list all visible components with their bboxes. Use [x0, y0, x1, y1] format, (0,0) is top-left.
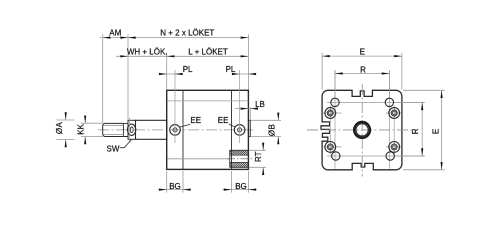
- dim line WH + L: [116, 55, 248, 57]
- arrow ØA top: [65, 112, 67, 120]
- KK extension lines: [81, 123, 103, 136]
- extension line boss face: [249, 107, 251, 119]
- arrow E right top: [441, 90, 443, 98]
- screw centerline horizontal top: [323, 112, 402, 114]
- dim line LB: [235, 108, 258, 110]
- rear boss B: [249, 120, 250, 136]
- arrow N left: [128, 37, 136, 39]
- plain hole center vertical right: [388, 70, 390, 169]
- arrow PL left-inner: [175, 73, 183, 75]
- RT extension lines: [249, 150, 266, 167]
- svg-text:LB: LB: [255, 100, 265, 109]
- wrench flat vertical centerline: [129, 118, 131, 143]
- rear thread hole RT outline: [230, 150, 249, 167]
- arrow LB left: [241, 108, 249, 110]
- arrow BG left-inner: [183, 189, 191, 191]
- RT hatch bottom band: [230, 162, 249, 167]
- svg-text:L + LÖKET: L + LÖKET: [188, 47, 228, 56]
- port circle left EE: [170, 125, 181, 136]
- svg-text:E: E: [431, 129, 440, 134]
- E right extension lines: [403, 90, 445, 170]
- lower profile line: [167, 158, 229, 160]
- front horizontal centerline: [307, 129, 416, 131]
- arrow PL right-inner: [232, 73, 240, 75]
- arrow ØB bottom: [277, 137, 279, 145]
- RT dim line: [262, 143, 264, 174]
- BG extension lines below body: [167, 171, 249, 193]
- R hole centerline horizontal bottom: [327, 155, 425, 157]
- RT core lines: [230, 155, 249, 162]
- svg-text:RT: RT: [254, 151, 263, 162]
- arrow PL right-outer: [248, 73, 256, 75]
- extension line rod tip: [102, 34, 104, 123]
- svg-text:WH + LÖK.: WH + LÖK.: [127, 47, 168, 56]
- dim line PL left: [159, 73, 181, 75]
- svg-text:ØB: ØB: [267, 124, 276, 136]
- port centerline right: [239, 70, 241, 143]
- port centerline left: [174, 70, 176, 143]
- RT hatch top band: [230, 150, 249, 155]
- R top extension lines: [335, 70, 389, 98]
- ØB dim line: [277, 113, 279, 144]
- screw centerline vertical left: [329, 106, 331, 155]
- arrow AM left: [103, 37, 111, 39]
- arrow R right bottom: [421, 148, 423, 156]
- arrow E top left: [322, 55, 330, 57]
- socket screw bottom-right: [389, 142, 400, 153]
- left end-cap line: [182, 90, 184, 169]
- svg-text:EE: EE: [218, 116, 229, 125]
- ØA extension stubs: [57, 120, 75, 140]
- arrow E top right: [394, 55, 402, 57]
- dim line E top: [322, 55, 402, 57]
- right end-cap line: [231, 90, 233, 169]
- arrow E right bottom: [441, 162, 443, 170]
- arrow WH left (outside): [120, 55, 128, 57]
- socket screw top-right: [389, 108, 400, 119]
- front vertical centerline: [361, 84, 363, 177]
- rod wrench-flat section SW: [128, 120, 136, 139]
- svg-text:R: R: [360, 66, 366, 75]
- arrow R top left: [335, 72, 343, 74]
- rod neck: [123, 123, 128, 136]
- dim line BG right: [222, 189, 257, 191]
- port circle right EE: [234, 125, 245, 136]
- piston rod: [136, 120, 167, 139]
- arrow R top right: [382, 72, 390, 74]
- leader EE left: [179, 124, 190, 127]
- dim line AM + N: [100, 37, 249, 39]
- extension line SW shoulder: [127, 34, 129, 120]
- arrow PL left-outer: [159, 73, 167, 75]
- cylinder body outline: [167, 90, 249, 169]
- E top extension lines: [322, 53, 402, 90]
- svg-text:BG: BG: [235, 182, 247, 191]
- arrow BG left-outer: [159, 189, 167, 191]
- upper profile line: [167, 100, 248, 102]
- arrow R right top: [421, 102, 423, 110]
- ØB extension lines: [251, 120, 281, 136]
- plain through-hole bottom-right: [386, 152, 394, 160]
- R right extension lines: [395, 102, 425, 156]
- plain through-hole top-right: [385, 98, 393, 106]
- svg-text:PL: PL: [226, 65, 236, 74]
- svg-text:AM: AM: [109, 29, 121, 38]
- extension line body front face: [166, 53, 168, 90]
- RT hole centerline: [227, 158, 253, 160]
- plain hole center vertical left: [334, 70, 336, 169]
- front plate outline: [321, 90, 402, 170]
- arrow ØA bottom: [65, 140, 67, 148]
- dim line E right: [441, 90, 443, 170]
- arrow ØB top: [277, 113, 279, 121]
- arrow L left: [167, 55, 175, 57]
- arrow AM right: [120, 37, 128, 39]
- KK dim line: [84, 116, 86, 144]
- rod thread KK: [103, 123, 124, 136]
- svg-text:EE: EE: [190, 116, 201, 125]
- leader EE right: [229, 124, 236, 127]
- screw centerline horizontal bottom: [323, 146, 402, 148]
- main horizontal centerline: [98, 129, 253, 131]
- plain through-hole bottom-left: [332, 152, 340, 160]
- svg-text:ØA: ØA: [55, 122, 64, 135]
- wrench flat outer ellipse: [127, 124, 135, 135]
- center rod ring inner: [356, 124, 368, 136]
- thread core lines: [103, 125, 123, 134]
- screw centerline vertical right: [393, 106, 395, 155]
- extension line body rear face: [247, 34, 249, 89]
- arrow L right: [241, 55, 249, 57]
- arrow N right: [241, 37, 249, 39]
- svg-text:BG: BG: [169, 182, 181, 191]
- arrow LB right: [250, 108, 258, 110]
- arrow BG right-outer: [224, 189, 232, 191]
- svg-text:KK: KK: [77, 123, 86, 134]
- leader SW: [120, 140, 132, 148]
- dim line BG left: [158, 189, 191, 191]
- center rod ring outer: [354, 122, 370, 138]
- svg-text:SW: SW: [107, 145, 120, 154]
- arrow BG right-inner: [248, 189, 256, 191]
- ØA dim line: [65, 113, 67, 147]
- svg-text:N + 2 x LÖKET: N + 2 x LÖKET: [160, 29, 214, 38]
- dim line R top: [335, 73, 389, 75]
- dim line R right: [421, 102, 423, 156]
- arrow KK top: [84, 116, 86, 124]
- R hole centerline horizontal top: [327, 101, 425, 103]
- socket screw bottom-left: [325, 142, 336, 153]
- wrench flat inner ellipse: [130, 127, 133, 133]
- svg-text:E: E: [360, 47, 365, 56]
- socket screw top-left: [325, 108, 336, 119]
- svg-text:PL: PL: [183, 65, 193, 74]
- arrow RT bottom: [262, 167, 264, 175]
- dim line PL right: [233, 73, 256, 75]
- plain through-hole top-left: [331, 98, 339, 106]
- arrow RT top: [262, 143, 264, 151]
- svg-text:R: R: [411, 128, 420, 134]
- arrow KK bottom: [84, 137, 86, 145]
